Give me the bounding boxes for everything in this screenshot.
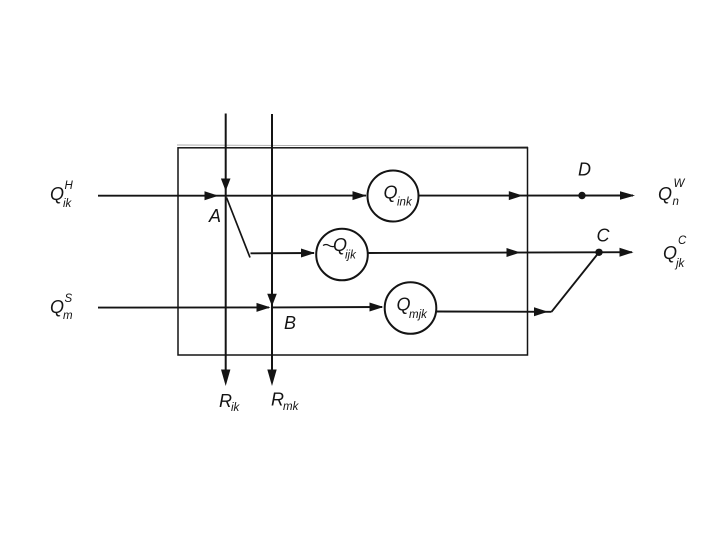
arrowhead into node B — [257, 303, 271, 312]
svg-text:H: H — [65, 180, 74, 192]
wire: row3 output from Q_mjk — [436, 311, 551, 313]
system boundary box — [178, 148, 528, 355]
wire: row1 output line — [419, 195, 634, 197]
arrowhead before bend — [534, 307, 548, 316]
svg-text:jk: jk — [674, 258, 686, 270]
arrowhead into Q_mjk — [370, 303, 384, 312]
svg-text:Q: Q — [50, 184, 64, 204]
svg-text:D: D — [578, 160, 591, 180]
wire: row2 output line — [368, 251, 632, 254]
squiggle artifact before Q — [323, 245, 334, 247]
arrowhead into Q_ink — [353, 191, 367, 200]
arrowhead inside box right edge row2 — [507, 248, 521, 257]
node D dot — [578, 192, 585, 199]
svg-text:n: n — [673, 196, 679, 208]
arrowhead at bottom of V2 — [267, 370, 276, 387]
svg-text:ik: ik — [63, 198, 73, 210]
svg-text:Q: Q — [663, 243, 677, 263]
wire: diagonal from node A — [227, 198, 251, 258]
wire: vertical line V1 (to R_ik) — [225, 114, 227, 373]
arrowhead into Q_ijk — [301, 249, 315, 258]
svg-text:Q: Q — [384, 183, 398, 203]
circle Q_mjk — [385, 282, 437, 334]
svg-text:C: C — [678, 235, 687, 247]
wire: row3 line B to Q_mjk — [272, 306, 382, 308]
svg-text:Q: Q — [50, 297, 64, 317]
svg-text:mk: mk — [283, 401, 300, 413]
arrowhead output row2 — [620, 248, 634, 257]
wire: vertical line V2 (to R_mk) — [271, 114, 273, 372]
svg-text:ijk: ijk — [345, 250, 357, 262]
svg-text:ik: ik — [231, 402, 241, 414]
arrowhead on V1 entering node A — [221, 179, 231, 192]
arrowhead inside box right edge row1 — [509, 191, 523, 200]
node C dot — [595, 249, 602, 256]
circle Q_ink — [368, 171, 419, 222]
scan ghost line above box top — [177, 145, 528, 147]
svg-text:mjk: mjk — [409, 309, 428, 321]
wire: row1 input line from Q_ik^H — [98, 195, 366, 197]
wire: row3 input line from Q_m^S — [98, 306, 269, 308]
arrowhead into node A — [205, 191, 219, 200]
svg-text:ink: ink — [397, 197, 413, 209]
wire: diagonal up to node C — [552, 252, 600, 311]
arrowhead at bottom of V1 — [221, 370, 230, 387]
arrowhead output row1 — [620, 191, 635, 200]
svg-text:A: A — [208, 206, 221, 226]
circle Q_ijk — [316, 229, 368, 281]
svg-text:S: S — [65, 293, 73, 305]
wire: row2 line to Q_ijk — [251, 252, 315, 254]
svg-text:C: C — [597, 226, 611, 246]
svg-text:m: m — [63, 310, 73, 322]
svg-text:B: B — [284, 313, 296, 333]
svg-text:W: W — [674, 178, 686, 190]
svg-text:Q: Q — [658, 184, 672, 204]
arrowhead on V2 entering node B — [267, 294, 277, 307]
